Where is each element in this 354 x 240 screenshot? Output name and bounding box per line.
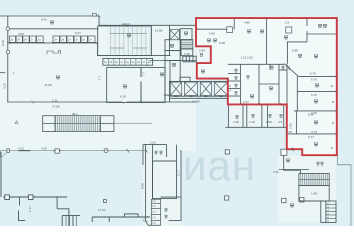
wall left vertical	[7, 16, 9, 102]
right rooms walls	[299, 75, 337, 77]
elevator bank outline	[170, 77, 228, 98]
stairs center rail	[182, 43, 193, 45]
room below stairs	[299, 185, 329, 201]
svg-text:1.95: 1.95	[286, 130, 292, 134]
wall y29.2	[197, 28, 227, 30]
svg-text:9.98: 9.98	[292, 49, 298, 53]
stairs treads top run	[56, 116, 101, 123]
room 6.18	[107, 68, 141, 103]
svg-text:3.48: 3.48	[219, 41, 225, 45]
stair enclosure	[299, 174, 329, 186]
bottom middle block	[143, 145, 181, 226]
svg-text:2б: 2б	[17, 38, 20, 42]
svg-text:1з: 1з	[143, 61, 145, 64]
svg-text:1.98: 1.98	[311, 191, 317, 195]
svg-text:1.48: 1.48	[249, 120, 255, 124]
svg-text:1.15: 1.15	[241, 55, 247, 59]
tiny labels in bottom-right cells	[327, 203, 330, 223]
svg-text:1.98: 1.98	[233, 120, 239, 124]
room right of 6.18	[141, 68, 165, 103]
lower cells room	[321, 201, 336, 222]
diagonal wall	[284, 64, 299, 77]
door white box near step	[281, 149, 287, 155]
svg-text:11.68: 11.68	[155, 29, 163, 33]
bench near entry	[47, 51, 61, 55]
bottom right block	[279, 155, 351, 226]
small triangle mark hall	[15, 121, 18, 124]
svg-text:2л: 2л	[89, 38, 92, 42]
vertical labels	[1, 40, 335, 212]
svg-text:2ж: 2ж	[61, 38, 64, 42]
cells row1 tiny labels	[10, 38, 92, 42]
wall inner horizontal y28.8	[8, 28, 98, 30]
tech room outline	[98, 26, 152, 56]
svg-text:2.06: 2.06	[199, 49, 205, 53]
svg-text:14.8: 14.8	[228, 85, 232, 91]
svg-text:4.05: 4.05	[18, 32, 24, 36]
column circle 1	[6, 27, 10, 31]
elevator lobby L wall	[164, 95, 169, 101]
partition x234	[233, 18, 235, 30]
svg-text:11.7: 11.7	[177, 170, 181, 176]
tiny labels in bottom-middle cells	[152, 201, 156, 225]
top-right room bottom	[307, 33, 337, 35]
svg-text:2.11: 2.11	[52, 98, 58, 102]
svg-text:2.61: 2.61	[150, 141, 156, 145]
lower cells dividers	[326, 205, 336, 219]
hall thin boundary line y150.6	[0, 150, 146, 152]
svg-text:6.41: 6.41	[41, 18, 47, 22]
elevator shafts	[170, 82, 227, 95]
white column box on hall line right	[55, 149, 59, 153]
bottom middle storefront	[92, 214, 150, 222]
column circle on hall line	[104, 149, 108, 153]
svg-text:27.86: 27.86	[52, 105, 60, 109]
svg-text:1.8: 1.8	[285, 21, 290, 25]
svg-text:2г: 2г	[31, 38, 33, 42]
svg-text:14.86: 14.86	[192, 99, 200, 103]
isolated column squares	[104, 150, 305, 203]
wc icons right of cells	[165, 209, 167, 212]
svg-text:5.98: 5.98	[141, 183, 145, 189]
svg-text:24.63: 24.63	[122, 22, 130, 26]
door white box top	[227, 27, 233, 33]
icon big right room	[298, 54, 301, 57]
wc in notch room	[200, 54, 202, 57]
svg-text:4.9: 4.9	[278, 120, 283, 124]
svg-text:1.98: 1.98	[266, 120, 272, 124]
svg-text:6.75: 6.75	[311, 93, 317, 97]
top-right room left wall	[306, 18, 308, 26]
wall top outer	[0, 15, 99, 17]
bottom-left storefront wall	[1, 152, 80, 226]
room row below red	[225, 104, 287, 127]
svg-text:2.02: 2.02	[247, 55, 253, 59]
bottom middle cells	[151, 199, 160, 225]
cells row3 service	[183, 56, 196, 62]
service room small	[165, 51, 180, 61]
wall top middle	[99, 24, 196, 26]
cells row2 tiny marks	[104, 61, 151, 64]
room (170-180,60.5-81.4)	[170, 61, 180, 82]
left edge stub wall	[0, 72, 5, 74]
bottom-left cells dividers	[66, 216, 77, 226]
wall room 11.68 right	[169, 25, 171, 55]
svg-text:5.27: 5.27	[75, 31, 81, 35]
wc icons top room	[155, 151, 157, 154]
red jog	[196, 28, 198, 29]
cloak room	[284, 155, 301, 170]
wc block top	[228, 63, 284, 65]
column box on hall line	[7, 149, 10, 152]
partition x266.6	[266, 18, 268, 65]
interior fill room row below red	[228, 104, 287, 127]
stairs treads bottom run	[56, 124, 101, 131]
room above stairs	[180, 29, 192, 40]
svg-text:1.7: 1.7	[98, 75, 102, 80]
svg-text:2.05: 2.05	[289, 123, 293, 129]
second icon top-right room	[323, 24, 326, 27]
door swing bottom middle block	[143, 216, 148, 221]
svg-text:6.77: 6.77	[308, 135, 314, 139]
cells row1 group A	[9, 36, 43, 42]
svg-text:7.7: 7.7	[142, 71, 146, 76]
wall main corridor y102	[8, 101, 121, 103]
door gap in wall x141	[140, 77, 142, 82]
door swing at hall left	[0, 151, 8, 158]
svg-text:6.18: 6.18	[120, 95, 126, 99]
column circle 2	[6, 50, 10, 54]
wall y60.5	[150, 60, 196, 62]
svg-text:2.17: 2.17	[28, 206, 32, 212]
big stairs block	[43, 116, 114, 132]
svg-text:2.47: 2.47	[243, 100, 249, 104]
lot line	[338, 155, 351, 226]
svg-text:1.95: 1.95	[184, 52, 190, 56]
tick marks hall line	[127, 149, 148, 153]
notch room fill	[197, 46, 211, 63]
wall step	[98, 16, 100, 25]
svg-text:9.95: 9.95	[209, 32, 215, 36]
svg-text:2.41: 2.41	[273, 170, 279, 174]
elevator shaft with X (top)	[170, 30, 179, 40]
svg-text:4.79: 4.79	[311, 111, 317, 115]
svg-text:B: B	[330, 147, 334, 149]
svg-text:8.40: 8.40	[1, 40, 5, 46]
svg-text:17.07: 17.07	[98, 208, 106, 212]
cells row2 outline	[103, 58, 153, 65]
tech room stripes	[108, 27, 151, 55]
wall y55.6	[98, 55, 170, 57]
bottom right stairs treads	[299, 174, 328, 179]
svg-text:B: B	[330, 85, 334, 87]
corridor wall x287	[286, 64, 288, 105]
svg-text:4.73: 4.73	[311, 130, 317, 134]
svg-text:8.76: 8.76	[311, 78, 317, 82]
svg-text:B: B	[331, 101, 335, 103]
svg-text:4.86: 4.86	[244, 21, 250, 25]
door mark on top wall	[93, 14, 97, 16]
wc inner walls	[239, 64, 241, 104]
wall room left x97.6	[97, 43, 99, 56]
service block outline	[165, 40, 180, 51]
interior fill bottom right block	[278, 155, 336, 222]
assorted dimension ticks	[9, 15, 338, 136]
landing room below stairs	[181, 49, 193, 56]
cells row1 group B	[53, 36, 95, 42]
tech room dim arrows	[110, 34, 147, 49]
svg-text:4.33: 4.33	[18, 147, 24, 151]
svg-text:1г: 1г	[121, 61, 123, 64]
svg-text:11.84: 11.84	[45, 83, 53, 87]
door tick on corridor bottom	[292, 148, 294, 151]
stair core walls	[181, 40, 193, 49]
building interior fill left	[0, 16, 196, 151]
svg-text:B: B	[331, 122, 335, 124]
hall wall pieces on line	[19, 150, 61, 152]
corridor wall x165	[164, 61, 166, 103]
apartment interior fill	[196, 18, 337, 155]
nook wall	[287, 42, 307, 64]
svg-text:4.15: 4.15	[3, 83, 7, 89]
svg-text:1ж: 1ж	[137, 61, 140, 64]
svg-text:2.0: 2.0	[287, 65, 291, 70]
svg-text:28.1: 28.1	[72, 112, 78, 116]
interior fill bottom middle block	[143, 145, 181, 226]
svg-text:4.35: 4.35	[41, 147, 47, 151]
svg-text:6.76: 6.76	[310, 71, 316, 75]
cells row2 dividers	[108, 58, 146, 65]
svg-text:2д: 2д	[38, 38, 41, 42]
elevator door ticks	[175, 95, 223, 97]
stairs treads (service core)	[182, 40, 193, 48]
door white box right room	[286, 27, 292, 33]
wall under cells row1	[8, 42, 98, 44]
